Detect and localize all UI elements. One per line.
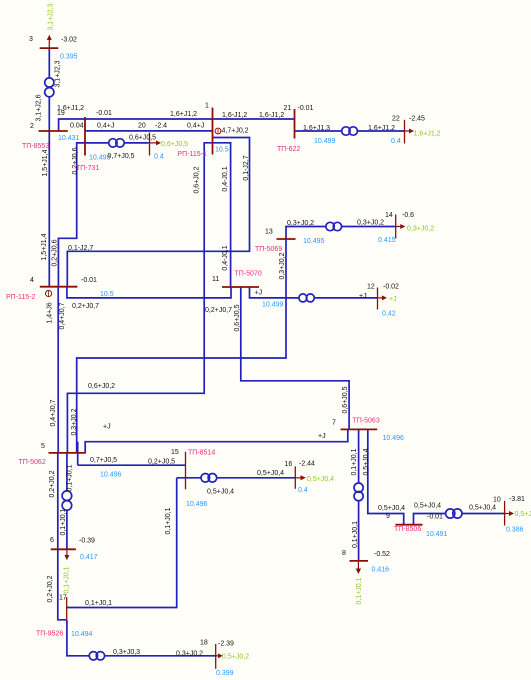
svg-text:0,7+J0,5: 0,7+J0,5 — [108, 153, 135, 160]
svg-text:0,3+J0,2: 0,3+J0,2 — [287, 220, 314, 227]
svg-text:0,1+J0,1: 0,1+J0,1 — [165, 507, 172, 534]
svg-text:0.395: 0.395 — [60, 54, 78, 61]
svg-text:2: 2 — [30, 123, 34, 130]
svg-text:0,5+J0,4: 0,5+J0,4 — [363, 448, 370, 475]
svg-text:+J: +J — [318, 433, 326, 440]
svg-text:0,2+J0,5: 0,2+J0,5 — [148, 459, 175, 466]
svg-text:13: 13 — [265, 229, 273, 236]
svg-text:0,3+J0,2: 0,3+J0,2 — [71, 408, 78, 435]
svg-text:10.495: 10.495 — [303, 238, 325, 245]
svg-text:8: 8 — [342, 550, 346, 557]
svg-text:-2.39: -2.39 — [218, 641, 234, 648]
svg-text:0,3+J0,2: 0,3+J0,2 — [407, 226, 434, 233]
svg-text:0,3+J0,3: 0,3+J0,3 — [113, 649, 140, 656]
svg-text:0,1-J2,7: 0,1-J2,7 — [68, 245, 93, 252]
svg-text:ТП-5063: ТП-5063 — [353, 418, 380, 425]
svg-text:20: 20 — [138, 123, 146, 130]
svg-text:0.416: 0.416 — [372, 567, 390, 574]
svg-text:0.42: 0.42 — [382, 311, 396, 318]
svg-text:-0.6: -0.6 — [402, 212, 414, 219]
svg-text:22: 22 — [392, 116, 400, 123]
svg-text:ТП-731: ТП-731 — [76, 165, 99, 172]
svg-text:1,6+J1,2: 1,6+J1,2 — [170, 111, 197, 118]
svg-text:РП-115-1: РП-115-1 — [178, 151, 208, 158]
svg-text:1,4+J6: 1,4+J6 — [47, 302, 54, 323]
svg-text:0,2+J0,7: 0,2+J0,7 — [72, 303, 99, 310]
svg-text:0,6+J0,2: 0,6+J0,2 — [194, 166, 201, 193]
svg-text:3,1+J2,6: 3,1+J2,6 — [36, 94, 43, 121]
svg-text:10.496: 10.496 — [383, 435, 405, 442]
svg-text:1,6+J1,3: 1,6+J1,3 — [303, 125, 330, 132]
svg-text:0,7+J0,5: 0,7+J0,5 — [90, 457, 117, 464]
svg-text:0.4: 0.4 — [298, 487, 308, 494]
svg-text:0,2+J0,7: 0,2+J0,7 — [205, 307, 232, 314]
svg-text:7: 7 — [332, 420, 336, 427]
svg-text:0,3+J0,2: 0,3+J0,2 — [357, 220, 384, 227]
svg-text:10.5: 10.5 — [100, 291, 114, 298]
svg-text:0.417: 0.417 — [80, 554, 98, 561]
svg-text:+J: +J — [359, 293, 367, 300]
svg-text:0,4+J0,7: 0,4+J0,7 — [59, 302, 66, 329]
svg-text:-0.02: -0.02 — [383, 284, 399, 291]
svg-text:0,5+J0,4: 0,5+J0,4 — [307, 476, 334, 483]
svg-text:18: 18 — [200, 640, 208, 647]
svg-text:+J: +J — [103, 424, 111, 431]
svg-text:ТП-8553: ТП-8553 — [22, 143, 49, 150]
svg-text:-3.02: -3.02 — [61, 37, 77, 44]
svg-text:0,1+J0,1: 0,1+J0,1 — [85, 600, 112, 607]
svg-text:0,1+J0,1: 0,1+J0,1 — [352, 521, 359, 548]
svg-text:-3.81: -3.81 — [509, 496, 525, 503]
svg-text:0,1+J0,1: 0,1+J0,1 — [60, 508, 67, 535]
svg-text:0,6+J0,5: 0,6+J0,5 — [161, 141, 188, 148]
svg-text:0,6+J0,2: 0,6+J0,2 — [88, 383, 115, 390]
svg-text:0,3+J0,2: 0,3+J0,2 — [176, 651, 203, 658]
svg-text:0,5+J0,4: 0,5+J0,4 — [515, 511, 531, 518]
svg-text:0,5+J0,4: 0,5+J0,4 — [378, 505, 405, 512]
svg-text:0,4-J0,1: 0,4-J0,1 — [222, 245, 229, 270]
svg-text:-2.44: -2.44 — [299, 461, 315, 468]
svg-text:14: 14 — [385, 212, 393, 219]
svg-text:10: 10 — [493, 497, 501, 504]
svg-text:-0.01: -0.01 — [427, 514, 443, 521]
svg-text:0,5+J0,2: 0,5+J0,2 — [222, 654, 249, 661]
svg-text:10.496: 10.496 — [186, 501, 208, 508]
svg-text:0,1+J0,1: 0,1+J0,1 — [351, 448, 358, 475]
svg-text:3,1+J2,3: 3,1+J2,3 — [55, 60, 62, 87]
svg-text:0,5+J0,4: 0,5+J0,4 — [257, 470, 284, 477]
svg-text:ТП-622: ТП-622 — [277, 146, 300, 153]
svg-text:15: 15 — [171, 449, 179, 456]
svg-text:0,6+J0,5: 0,6+J0,5 — [234, 304, 241, 331]
svg-text:-2.4: -2.4 — [155, 123, 167, 130]
svg-text:-0.39: -0.39 — [79, 538, 95, 545]
svg-text:10.431: 10.431 — [58, 135, 80, 142]
svg-text:10.499: 10.499 — [262, 302, 284, 309]
svg-text:10.491: 10.491 — [426, 531, 448, 538]
svg-text:0,2+J0,6: 0,2+J0,6 — [52, 239, 59, 266]
svg-text:10.5: 10.5 — [215, 147, 229, 154]
svg-text:3: 3 — [29, 36, 33, 43]
svg-text:4: 4 — [30, 277, 34, 284]
svg-text:0,6+J0,5: 0,6+J0,5 — [342, 386, 349, 413]
svg-text:1,6-J1,2: 1,6-J1,2 — [259, 112, 284, 119]
svg-text:0,2+J0,2: 0,2+J0,2 — [49, 470, 56, 497]
svg-text:3,1+J2,3: 3,1+J2,3 — [48, 3, 55, 30]
svg-text:ТП-9526: ТП-9526 — [36, 631, 63, 638]
svg-text:16: 16 — [285, 461, 293, 468]
svg-text:0,6+J0,5: 0,6+J0,5 — [129, 135, 156, 142]
svg-text:+J: +J — [389, 296, 397, 303]
svg-text:-2.45: -2.45 — [409, 116, 425, 123]
svg-text:1,6+J1,2: 1,6+J1,2 — [414, 131, 441, 138]
svg-text:ТП-5070: ТП-5070 — [235, 271, 262, 278]
svg-text:ТП-8514: ТП-8514 — [188, 450, 215, 457]
svg-text:0.4: 0.4 — [391, 138, 401, 145]
svg-text:9: 9 — [386, 513, 390, 520]
svg-text:19: 19 — [57, 110, 65, 117]
svg-text:0,3+J0,2: 0,3+J0,2 — [279, 252, 286, 279]
svg-text:0,1+J0,1: 0,1+J0,1 — [64, 566, 71, 593]
svg-text:0,1-J2,7: 0,1-J2,7 — [243, 155, 250, 180]
svg-text:4,7+J0,2: 4,7+J0,2 — [222, 128, 249, 135]
svg-text:0.4: 0.4 — [154, 154, 164, 161]
svg-text:1,5+J1,4: 1,5+J1,4 — [41, 233, 48, 260]
svg-text:10.499: 10.499 — [314, 138, 336, 145]
svg-text:10.496: 10.496 — [100, 472, 122, 479]
svg-text:РП-115-2: РП-115-2 — [6, 294, 36, 301]
svg-text:11: 11 — [212, 276, 219, 283]
svg-text:0,4-J0,1: 0,4-J0,1 — [222, 166, 229, 191]
svg-text:1: 1 — [205, 103, 209, 110]
svg-text:6: 6 — [50, 537, 54, 544]
svg-text:0.399: 0.399 — [216, 670, 234, 677]
svg-text:0,5+J0,4: 0,5+J0,4 — [469, 505, 496, 512]
svg-text:1,6-J1,2: 1,6-J1,2 — [222, 112, 247, 119]
svg-text:0,4+J: 0,4+J — [187, 123, 204, 130]
svg-text:12: 12 — [367, 284, 375, 291]
svg-text:0,1+J0,1: 0,1+J0,1 — [67, 464, 74, 491]
svg-text:10.494: 10.494 — [71, 631, 93, 638]
svg-text:1,6+J1,2: 1,6+J1,2 — [368, 125, 395, 132]
svg-text:10.499: 10.499 — [89, 155, 111, 162]
svg-text:0.415: 0.415 — [378, 237, 396, 244]
svg-text:5: 5 — [41, 443, 45, 450]
svg-text:0,4+J: 0,4+J — [97, 123, 114, 130]
svg-text:0,1+J0,1: 0,1+J0,1 — [356, 577, 363, 604]
svg-text:ТП-5062: ТП-5062 — [19, 459, 46, 466]
svg-text:17: 17 — [59, 595, 67, 602]
svg-text:0,2+J0,2: 0,2+J0,2 — [47, 575, 54, 602]
svg-text:-0.01: -0.01 — [96, 110, 112, 117]
svg-text:ТП-8506: ТП-8506 — [394, 526, 421, 533]
svg-text:0,5+J0,4: 0,5+J0,4 — [207, 489, 234, 496]
svg-text:-0.52: -0.52 — [374, 551, 390, 558]
svg-text:0.04: 0.04 — [70, 123, 84, 130]
svg-text:+J: +J — [255, 290, 263, 297]
svg-text:-0.01: -0.01 — [298, 105, 314, 112]
svg-text:0,5+J0,4: 0,5+J0,4 — [414, 503, 441, 510]
svg-text:0.386: 0.386 — [506, 527, 524, 534]
svg-text:1,5+J1,4: 1,5+J1,4 — [42, 149, 49, 176]
svg-text:-0.01: -0.01 — [81, 277, 97, 284]
svg-text:0,4+J0,7: 0,4+J0,7 — [50, 399, 57, 426]
svg-text:ТП-5069: ТП-5069 — [255, 246, 282, 253]
svg-text:21: 21 — [284, 105, 292, 112]
